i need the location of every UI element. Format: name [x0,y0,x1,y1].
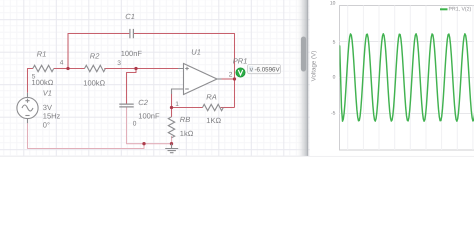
junction dot rail/C2 [142,142,145,145]
wire RA right to output vertical [221,107,235,109]
wire node 4 to R2 [68,68,85,70]
svg-text:Voltage (V): Voltage (V) [311,51,318,82]
ground [165,144,178,153]
svg-text:3: 3 [117,60,121,67]
svg-text:R2: R2 [90,52,100,61]
wire V1 bottom to rail [28,123,145,148]
wire node 1 to RB top [171,108,173,118]
svg-text:RA: RA [206,93,216,102]
junction dot ground [170,142,173,145]
svg-text:3V: 3V [43,103,52,112]
svg-text:100kΩ: 100kΩ [32,78,54,87]
resistor R1 [33,65,54,71]
svg-text:PR1, V(2): PR1, V(2) [449,7,472,13]
op-amp U1 [172,64,222,95]
svg-text:C2: C2 [138,98,148,107]
svg-text:0°: 0° [43,120,50,129]
trace PR1 V(2) [340,34,474,121]
capacitor C2 [119,104,133,107]
svg-text:R1: R1 [37,50,47,59]
svg-text:5: 5 [333,39,336,45]
svg-text:RB: RB [180,115,190,124]
resistor RA [203,104,224,110]
svg-text:100nF: 100nF [121,49,143,58]
source V1 [17,93,38,124]
wire C1 right plate to output vertical [134,34,235,108]
wire node 3 jog down to C2 [127,69,137,104]
chart vertical gridlines [348,6,473,151]
chart plot area [340,6,474,151]
svg-text:0: 0 [333,75,336,81]
splitter handle [301,37,306,72]
wire node 1 to RA [172,107,203,109]
resistor RB [168,117,174,138]
svg-text:1kΩ: 1kΩ [180,129,194,138]
chart horizontal gridlines [340,42,474,114]
resistor R2 [85,65,106,71]
probe PR1 value tooltip [248,65,281,74]
svg-text:-6.0596V: -6.0596V [255,67,281,74]
ground net wires (pink): V1 bottom rail, C2 bottom, RB bottom [28,107,172,148]
svg-text:2: 2 [229,71,233,78]
wire V1 top to R1 (node 5 net) [28,34,235,118]
svg-text:100nF: 100nF [138,112,160,121]
wire R2 to node 3 and op-amp + input [104,68,178,70]
svg-text:0: 0 [133,120,137,127]
svg-text:V: V [250,67,254,73]
pane edge shadow [296,0,308,157]
wire op-amp inverting input down to node 1 [171,94,173,108]
svg-text:V1: V1 [43,89,52,98]
node 4 [66,67,69,70]
node 3 [134,67,137,70]
node 2 junction [233,77,236,80]
svg-text:10: 10 [330,0,336,6]
wire C2 bottom to rail junction [127,107,172,143]
svg-text:1KΩ: 1KΩ [206,116,221,125]
wire node 4 up and top rail to C1 [68,34,129,69]
svg-text:1: 1 [175,101,179,108]
svg-text:-5: -5 [331,110,336,116]
schematic canvas background with grid [0,0,310,157]
pane edge line [307,0,308,157]
svg-text:C1: C1 [125,12,135,21]
svg-text:100kΩ: 100kΩ [83,79,105,88]
wire op-amp output to node 2 [222,78,235,80]
legend PR1, V(2) [440,8,448,10]
svg-text:15Hz: 15Hz [43,112,61,121]
capacitor C1 [130,29,134,38]
svg-text:PR1: PR1 [233,56,248,65]
wire R1 right to node 4 [54,68,68,70]
wire RB bottom to ground [171,136,173,144]
svg-text:4: 4 [60,60,64,67]
bottom pane border [0,156,474,157]
node 1 [170,106,173,109]
svg-text:U1: U1 [191,48,201,57]
